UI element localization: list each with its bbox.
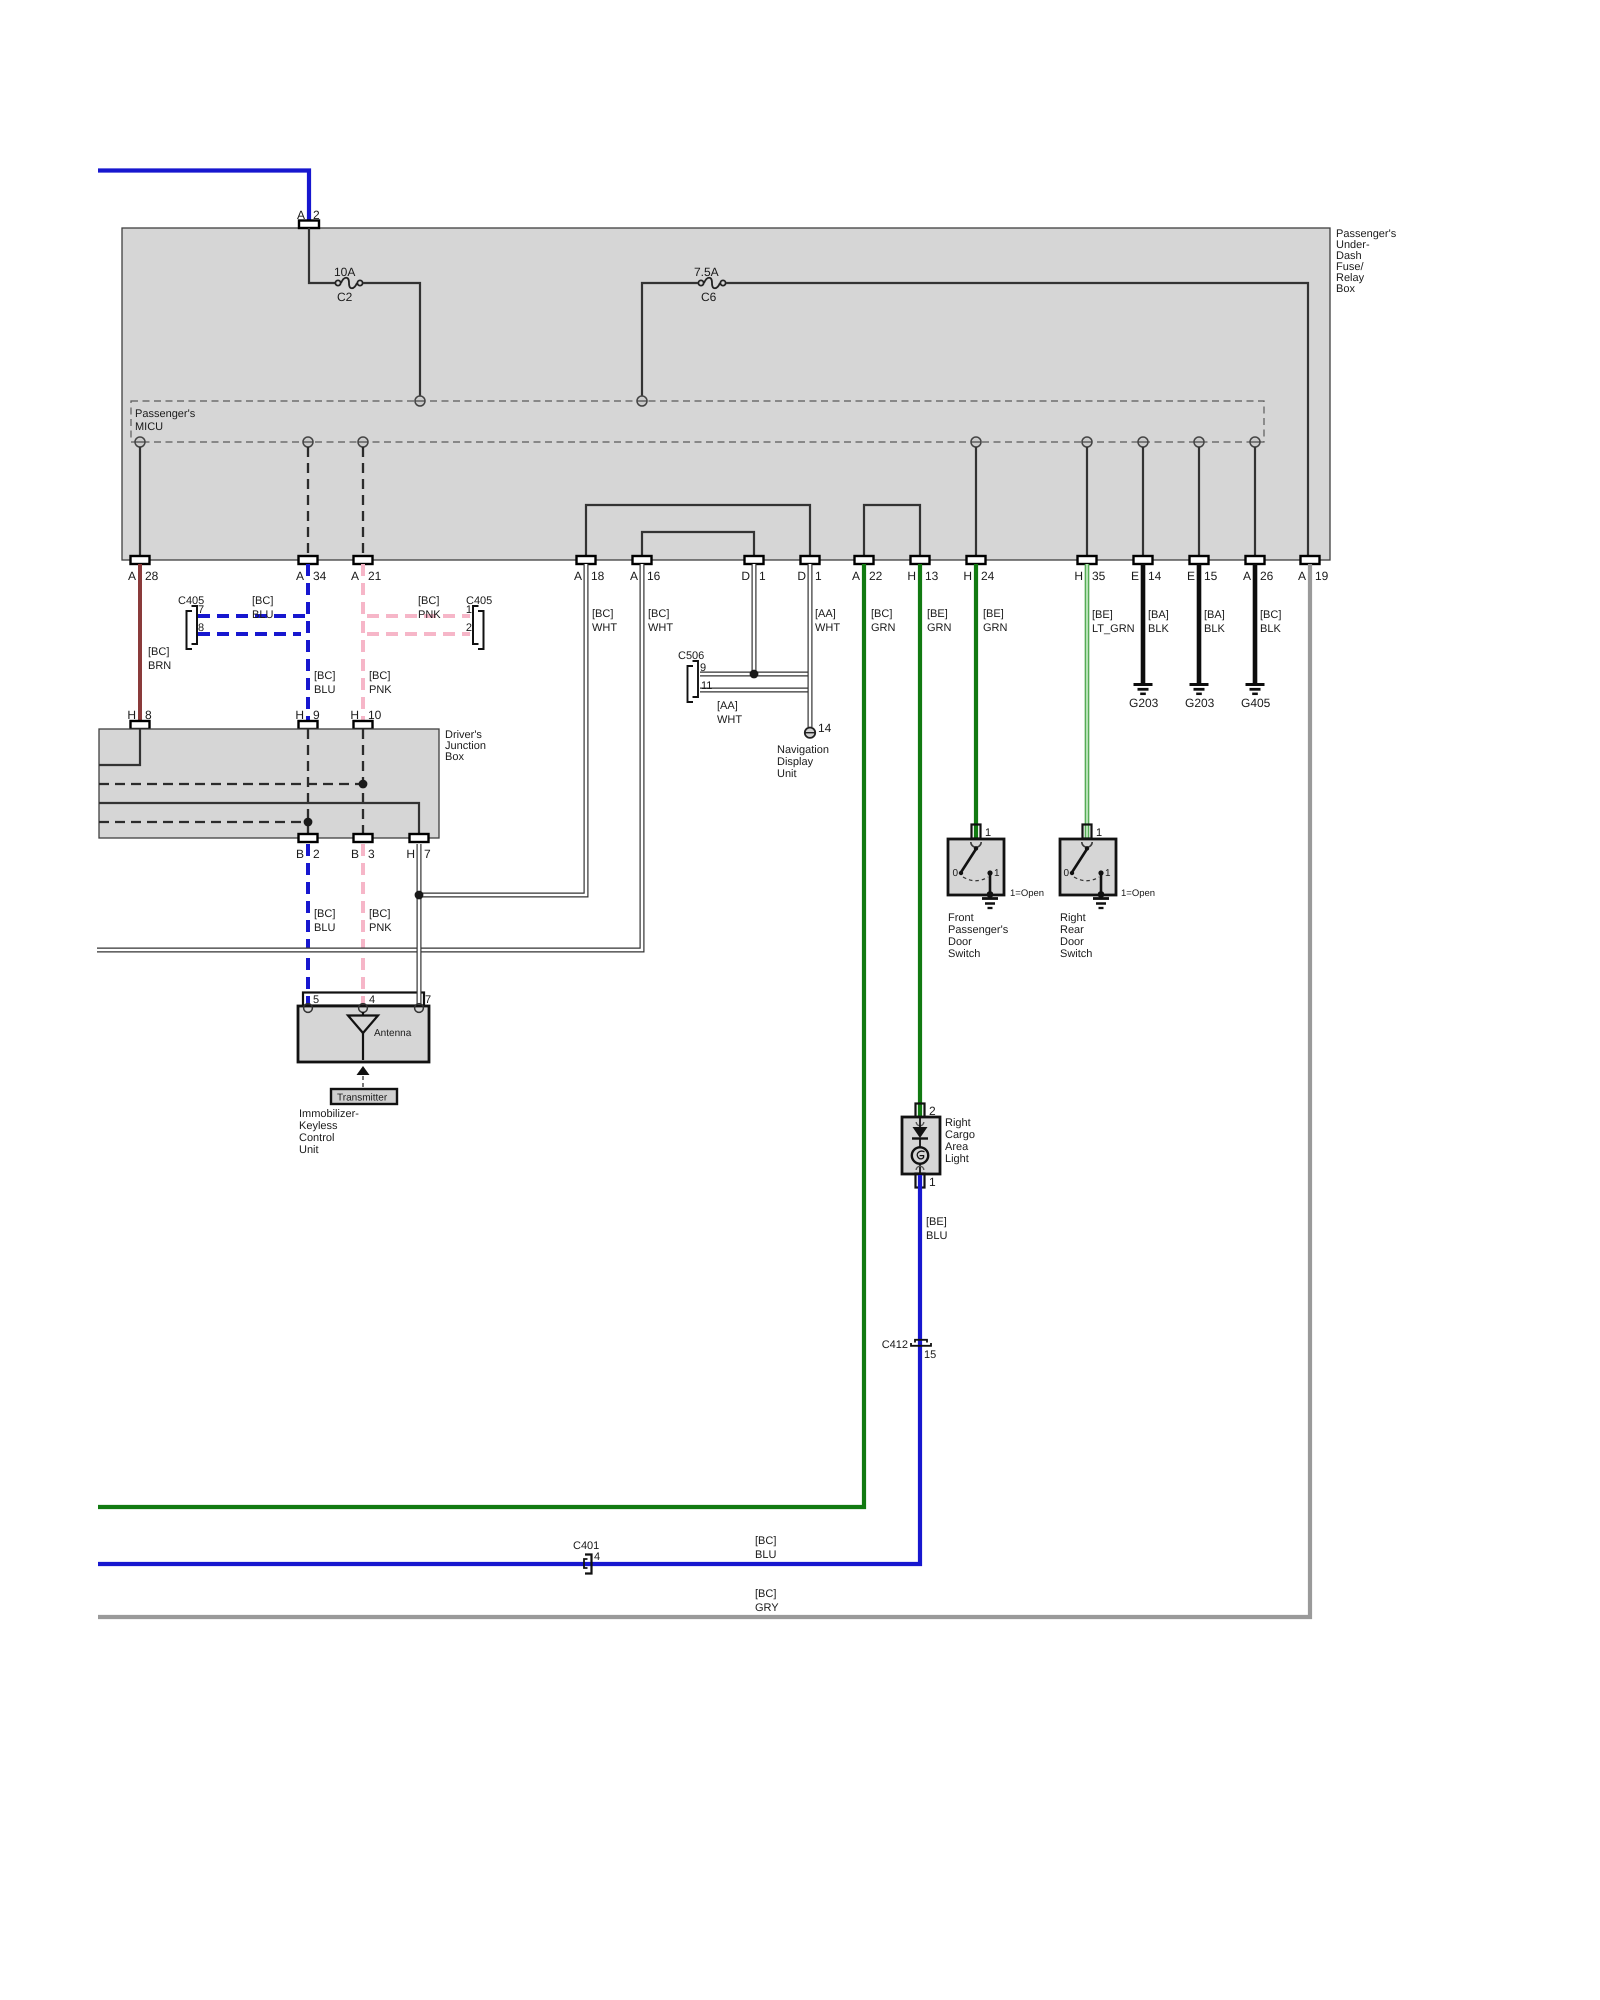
svg-text:Display: Display — [777, 756, 814, 768]
antenna symbol — [348, 1012, 412, 1060]
connector A-22 — [852, 556, 883, 583]
wire [BE] GRN H-13 to cargo light — [918, 564, 922, 1116]
svg-text:[BC]: [BC] — [418, 595, 439, 607]
wire [BC] WHT A-18 to H-7 junction — [419, 564, 586, 895]
wire [BC] BLU C405 pin 8 — [198, 632, 301, 636]
wire [BC] BLU B-2 to immobilizer pin 5 — [306, 844, 310, 1006]
navigation display unit terminal 14 — [777, 721, 832, 780]
connector C405 (left half, pins 7/8) — [178, 595, 204, 649]
svg-text:B: B — [296, 847, 304, 861]
svg-text:H: H — [907, 569, 916, 583]
MICU pin circle (C2 output) — [415, 396, 425, 406]
svg-text:C6: C6 — [701, 290, 717, 304]
svg-text:Front: Front — [948, 912, 974, 924]
svg-text:[BE]: [BE] — [983, 608, 1004, 620]
MICU pin circle E-14 — [1138, 437, 1148, 447]
svg-text:BLK: BLK — [1148, 623, 1169, 635]
wire H-9 to B-2 internal (dashed) — [307, 729, 309, 834]
svg-text:A: A — [1243, 569, 1251, 583]
svg-text:D: D — [741, 569, 750, 583]
svg-text:PNK: PNK — [369, 922, 392, 934]
svg-text:Passenger's: Passenger's — [948, 924, 1009, 936]
wire fuse C2 to MICU — [363, 283, 420, 397]
immobilizer pin strip — [303, 993, 424, 1006]
svg-text:[BC]: [BC] — [148, 646, 169, 658]
connector E-15 — [1187, 556, 1218, 583]
connector A-34 — [296, 556, 327, 583]
svg-text:[BE]: [BE] — [1092, 609, 1113, 621]
svg-text:10: 10 — [368, 708, 382, 722]
wire [BC] PNK C405 pin 1 — [367, 614, 470, 618]
svg-text:Area: Area — [945, 1141, 969, 1153]
svg-text:[BA]: [BA] — [1148, 609, 1169, 621]
immobilizer caption — [299, 1108, 359, 1156]
wire MICU to A-21 (dashed) — [362, 447, 364, 556]
svg-text:35: 35 — [1092, 569, 1106, 583]
svg-text:[BC]: [BC] — [252, 595, 273, 607]
svg-text:21: 21 — [368, 569, 382, 583]
wire [BA] BLK E-15 to ground — [1197, 564, 1202, 683]
svg-text:Door: Door — [1060, 936, 1084, 948]
svg-text:G203: G203 — [1129, 696, 1159, 710]
wire A-16 to D-1 internal loop — [642, 532, 754, 556]
svg-text:26: 26 — [1260, 569, 1274, 583]
wire MICU to E-14 — [1142, 447, 1144, 556]
right cargo area light — [902, 1104, 975, 1190]
svg-text:E: E — [1131, 569, 1139, 583]
wire [BC] BLU C405 pin 7 — [198, 614, 307, 618]
svg-text:1=Open: 1=Open — [1010, 888, 1044, 899]
svg-text:BLU: BLU — [755, 1549, 776, 1561]
connector H-13 — [907, 556, 938, 583]
svg-text:[BE]: [BE] — [927, 608, 948, 620]
svg-text:Right: Right — [1060, 912, 1086, 924]
svg-text:[BE]: [BE] — [926, 1216, 947, 1228]
svg-text:24: 24 — [981, 569, 995, 583]
svg-text:22: 22 — [869, 569, 883, 583]
svg-text:A: A — [128, 569, 136, 583]
MICU pin circle A-28 — [135, 437, 145, 447]
svg-text:5: 5 — [313, 994, 319, 1006]
svg-text:H: H — [963, 569, 972, 583]
connector A-28 — [128, 556, 159, 583]
svg-text:E: E — [1187, 569, 1195, 583]
connector A-16 — [630, 556, 661, 583]
wire [AA] WHT D-1 (second) down to terminal 14 — [808, 564, 813, 727]
svg-text:2: 2 — [313, 847, 320, 861]
svg-text:Transmitter: Transmitter — [337, 1093, 388, 1104]
connector H-7 — [406, 834, 431, 861]
svg-text:BRN: BRN — [148, 660, 171, 672]
wire [BC] WHT A-16 (down and left) — [97, 564, 642, 950]
wire [BC] BRN A-28 to H-8 — [138, 564, 142, 721]
svg-text:GRN: GRN — [983, 622, 1008, 634]
svg-text:A: A — [351, 569, 359, 583]
svg-text:15: 15 — [1204, 569, 1218, 583]
svg-text:13: 13 — [925, 569, 939, 583]
svg-text:C2: C2 — [337, 290, 353, 304]
svg-text:Control: Control — [299, 1132, 334, 1144]
svg-text:Light: Light — [945, 1153, 969, 1165]
wire [BC] BLU A-34 to H-9 — [306, 564, 310, 721]
svg-text:Immobilizer-: Immobilizer- — [299, 1108, 359, 1120]
svg-text:GRN: GRN — [927, 622, 952, 634]
wire MICU to E-15 — [1198, 447, 1200, 556]
immobilizer pin circle 7 — [415, 1004, 424, 1013]
svg-text:A: A — [1298, 569, 1306, 583]
connector B-2 — [296, 834, 320, 861]
connector C405 (right half, pins 1/2) — [466, 595, 492, 649]
svg-text:14: 14 — [818, 721, 832, 735]
svg-text:10A: 10A — [334, 265, 355, 279]
svg-text:PNK: PNK — [418, 609, 441, 621]
wire A-18 to D-1 internal loop — [586, 505, 810, 556]
MICU pin circle A-21 — [358, 437, 368, 447]
svg-text:15: 15 — [924, 1349, 936, 1361]
wire battery feed BLU (top) — [98, 171, 309, 221]
connector D-1 (second) — [797, 556, 822, 583]
passenger's MICU dashed outline — [131, 401, 1264, 442]
fuse C6 7.5A — [694, 265, 726, 304]
wire [BC] BLK A-26 to ground — [1253, 564, 1258, 683]
svg-text:BLU: BLU — [926, 1230, 947, 1242]
connector A-18 — [574, 556, 605, 583]
svg-text:34: 34 — [313, 569, 327, 583]
connector H-24 — [963, 556, 994, 583]
svg-text:A: A — [296, 569, 304, 583]
wire A-2 to fuse C2 — [309, 228, 335, 283]
immobilizer pin circle 5 — [304, 1004, 313, 1013]
svg-text:Antenna: Antenna — [374, 1028, 412, 1039]
connector H-10 — [350, 708, 381, 729]
wire internal solid to H-7 — [99, 803, 419, 834]
svg-text:[BC]: [BC] — [592, 608, 613, 620]
wire internal dashed bus 1 — [99, 783, 363, 785]
svg-text:Rear: Rear — [1060, 924, 1084, 936]
svg-text:WHT: WHT — [648, 622, 673, 634]
svg-text:WHT: WHT — [717, 714, 742, 726]
immobilizer pin circle 4 — [359, 1004, 368, 1013]
wire MICU to H-35 — [1086, 447, 1088, 556]
ground G203 (E-15) — [1185, 685, 1215, 711]
wire [BC] PNK A-21 to H-10 — [361, 564, 365, 721]
wire H-8 internal — [99, 729, 140, 765]
svg-text:1: 1 — [929, 1175, 936, 1189]
svg-text:Keyless: Keyless — [299, 1120, 338, 1132]
bulb in cargo light — [912, 1147, 928, 1163]
svg-text:BLU: BLU — [314, 684, 335, 696]
svg-text:Cargo: Cargo — [945, 1129, 975, 1141]
connector E-14 — [1131, 556, 1162, 583]
svg-text:Switch: Switch — [1060, 948, 1092, 960]
svg-text:[BC]: [BC] — [314, 908, 335, 920]
svg-text:18: 18 — [591, 569, 605, 583]
junction dot H-7/A-18 — [415, 891, 424, 900]
MICU pin circle A-26 — [1250, 437, 1260, 447]
svg-text:G405: G405 — [1241, 696, 1271, 710]
svg-text:[AA]: [AA] — [815, 608, 836, 620]
svg-text:WHT: WHT — [592, 622, 617, 634]
svg-text:8: 8 — [145, 708, 152, 722]
svg-text:A: A — [574, 569, 582, 583]
junction dot bus2/H-9 — [304, 818, 313, 827]
connector H-9 — [295, 708, 320, 729]
svg-text:11: 11 — [701, 680, 712, 692]
connector H-8 — [127, 708, 152, 729]
svg-text:PNK: PNK — [369, 684, 392, 696]
inline connector C412 pin 15 — [882, 1339, 937, 1361]
connector A-19 — [1298, 556, 1329, 583]
wire [BA] BLK E-14 to ground — [1141, 564, 1146, 683]
wire MICU to A-28 — [139, 447, 141, 556]
svg-text:Navigation: Navigation — [777, 744, 829, 756]
svg-text:C506: C506 — [678, 650, 704, 662]
wire fuse C6 to connector A-19 — [726, 283, 1308, 556]
fuse C2 10A — [334, 265, 363, 304]
svg-text:H: H — [295, 708, 304, 722]
svg-text:GRN: GRN — [871, 622, 896, 634]
junction dot C506-9/D-1 — [750, 670, 759, 679]
connector B-3 — [351, 834, 375, 861]
wire [BE] GRN H-24 to front door switch — [974, 564, 978, 838]
driver's junction box — [99, 729, 439, 838]
svg-text:Unit: Unit — [777, 768, 797, 780]
wire [BE] BLU cargo light to C412 and bottom — [98, 1175, 920, 1564]
MICU pin circle (C6 input) — [637, 396, 647, 406]
svg-text:28: 28 — [145, 569, 159, 583]
svg-text:D: D — [797, 569, 806, 583]
svg-text:A: A — [630, 569, 638, 583]
svg-text:16: 16 — [647, 569, 661, 583]
passenger's under-dash fuse/relay box — [122, 228, 1330, 560]
svg-text:H: H — [350, 708, 359, 722]
svg-text:0: 0 — [1063, 868, 1069, 879]
svg-text:Unit: Unit — [299, 1144, 319, 1156]
svg-text:1: 1 — [1096, 827, 1102, 839]
svg-text:3: 3 — [368, 847, 375, 861]
ground G405 (A-26) — [1241, 685, 1271, 711]
wire MICU to A-34 (dashed) — [307, 447, 309, 556]
wire H-7 to immobilizer pin 7 — [417, 844, 422, 1006]
svg-text:LT_GRN: LT_GRN — [1092, 623, 1135, 635]
wire A-22 to H-13 internal loop — [864, 505, 920, 556]
MICU pin circle E-15 — [1194, 437, 1204, 447]
transmitter box — [331, 1089, 397, 1104]
connector C506 (pins 9/11) — [678, 650, 712, 702]
svg-text:Right: Right — [945, 1117, 971, 1129]
svg-text:H: H — [406, 847, 415, 861]
svg-text:H: H — [1074, 569, 1083, 583]
svg-text:BLU: BLU — [252, 609, 273, 621]
svg-text:[BC]: [BC] — [369, 670, 390, 682]
svg-text:7: 7 — [425, 994, 431, 1006]
svg-text:GRY: GRY — [755, 1602, 779, 1614]
svg-text:BLU: BLU — [314, 922, 335, 934]
svg-text:Door: Door — [948, 936, 972, 948]
svg-text:7.5A: 7.5A — [694, 265, 719, 279]
transmitter dashed link — [362, 1076, 364, 1089]
svg-text:C412: C412 — [882, 1339, 908, 1351]
front passenger's door switch — [948, 825, 1044, 961]
connector A-2 — [299, 221, 319, 229]
svg-text:1: 1 — [1105, 868, 1111, 879]
MICU pin circle H-35 — [1082, 437, 1092, 447]
connector A-21 — [351, 556, 382, 583]
svg-text:[BC]: [BC] — [755, 1535, 776, 1547]
immobilizer-keyless control unit box — [298, 1006, 429, 1062]
svg-text:[BC]: [BC] — [871, 608, 892, 620]
svg-text:9: 9 — [700, 662, 706, 674]
connector D-1 (first) — [741, 556, 766, 583]
svg-text:1: 1 — [994, 868, 1000, 879]
svg-text:14: 14 — [1148, 569, 1162, 583]
wire D-1 (first) down to C506 bus — [752, 564, 757, 671]
svg-text:[BC]: [BC] — [648, 608, 669, 620]
right rear door switch — [1060, 825, 1155, 961]
MICU pin circle H-24 — [971, 437, 981, 447]
svg-text:[BC]: [BC] — [1260, 609, 1281, 621]
wire [BE] LT_GRN H-35 to right rear door switch — [1085, 564, 1090, 838]
wire C506 pin 11 bus — [700, 688, 812, 693]
svg-text:9: 9 — [313, 708, 320, 722]
svg-text:[BC]: [BC] — [755, 1588, 776, 1600]
wire MICU to H-24 — [975, 447, 977, 556]
wire [BC] GRN A-22 (down, left at bottom) — [98, 564, 864, 1507]
connector H-35 — [1074, 556, 1105, 583]
svg-text:2: 2 — [313, 208, 320, 222]
svg-text:H: H — [127, 708, 136, 722]
svg-text:G203: G203 — [1185, 696, 1215, 710]
wire internal dashed bus 2 — [99, 821, 308, 823]
wire [BC] PNK C405 pin 2 — [367, 632, 470, 636]
transmitter arrow — [357, 1066, 370, 1075]
svg-text:BLK: BLK — [1260, 623, 1281, 635]
wire H-10 to B-3 internal (dashed) — [362, 729, 364, 834]
svg-text:4: 4 — [369, 994, 375, 1006]
svg-text:[BA]: [BA] — [1204, 609, 1225, 621]
svg-text:Box: Box — [445, 751, 464, 763]
ground G203 (E-14) — [1129, 685, 1159, 711]
MICU pin circle A-34 — [303, 437, 313, 447]
svg-text:7: 7 — [424, 847, 431, 861]
svg-text:[BC]: [BC] — [369, 908, 390, 920]
svg-text:A: A — [852, 569, 860, 583]
junction dot bus1/H-10 — [359, 780, 368, 789]
svg-text:4: 4 — [594, 1551, 600, 1563]
svg-text:1: 1 — [815, 569, 822, 583]
svg-text:B: B — [351, 847, 359, 861]
svg-text:Passenger's: Passenger's — [135, 408, 196, 420]
svg-text:1=Open: 1=Open — [1121, 888, 1155, 899]
connector A-26 — [1243, 556, 1274, 583]
wire [BC] GRY A-19 (down right side, left at bottom) — [98, 564, 1310, 1617]
svg-text:1: 1 — [985, 827, 991, 839]
svg-text:Box: Box — [1336, 283, 1355, 295]
svg-text:0: 0 — [952, 868, 958, 879]
wire MICU to A-26 — [1254, 447, 1256, 556]
svg-text:MICU: MICU — [135, 421, 163, 433]
diode in cargo light — [919, 1117, 921, 1127]
svg-text:BLK: BLK — [1204, 623, 1225, 635]
svg-text:A: A — [297, 208, 305, 222]
svg-text:[AA]: [AA] — [717, 700, 738, 712]
svg-text:19: 19 — [1315, 569, 1329, 583]
svg-text:[BC]: [BC] — [314, 670, 335, 682]
wire [BC] PNK B-3 to immobilizer pin 4 — [361, 844, 365, 1006]
inline connector C401 pin 4 — [573, 1540, 600, 1574]
svg-text:1: 1 — [759, 569, 766, 583]
wire MICU to fuse C6 — [642, 283, 698, 397]
svg-text:WHT: WHT — [815, 622, 840, 634]
wire C506 pin 9 bus — [700, 672, 812, 677]
svg-text:Switch: Switch — [948, 948, 980, 960]
